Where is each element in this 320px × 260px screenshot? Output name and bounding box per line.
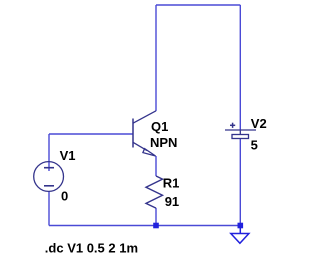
- resistor R1: [146, 176, 163, 208]
- wire emitter vertical to R1: [155, 156, 157, 176]
- svg-text:.dc V1 0.5 2 1m: .dc V1 0.5 2 1m: [45, 240, 138, 255]
- wire V1 bottom vertical: [48, 191, 50, 225]
- svg-text:NPN: NPN: [150, 135, 177, 150]
- svg-text:V1: V1: [60, 148, 76, 163]
- wire V2 top vertical: [239, 5, 241, 130]
- svg-text:Q1: Q1: [151, 119, 168, 134]
- svg-text:91: 91: [165, 194, 179, 209]
- junction R1-bus: [153, 223, 159, 229]
- wire V1 top vertical: [48, 134, 50, 171]
- transistor Q1: [133, 111, 156, 156]
- wire top horizontal collector-to-V2: [156, 4, 240, 6]
- ground: [231, 228, 249, 243]
- svg-text:5: 5: [251, 137, 258, 152]
- battery V2: [225, 123, 256, 139]
- wire collector vertical: [155, 5, 157, 111]
- voltage source V1: [34, 162, 64, 192]
- wire base horizontal V1-to-Q1: [49, 133, 133, 135]
- svg-text:0: 0: [61, 188, 68, 203]
- junction V2-bus: [238, 223, 244, 229]
- wire V2 bottom vertical: [239, 139, 241, 226]
- wire R1 bottom vertical: [155, 208, 157, 226]
- svg-text:V2: V2: [251, 116, 267, 131]
- wire bottom bus horizontal: [49, 225, 240, 227]
- svg-text:R1: R1: [163, 176, 180, 191]
